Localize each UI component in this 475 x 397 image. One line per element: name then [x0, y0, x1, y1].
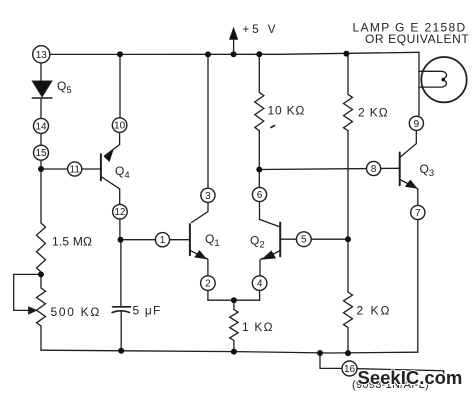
wire node 16 stub from rail	[320, 353, 342, 368]
wire top rail down to 10K resistor	[258, 54, 260, 92]
svg-text:1.5 MΩ: 1.5 MΩ	[52, 235, 92, 249]
svg-text:500 KΩ: 500 KΩ	[51, 305, 102, 319]
svg-text:6: 6	[257, 190, 263, 201]
wire bottom ground rail	[41, 350, 418, 353]
junction dot rail / 1K	[231, 349, 237, 355]
svg-text:Q5: Q5	[57, 79, 72, 96]
resistor 2 Kohm upper	[344, 94, 353, 130]
wire Q4 collector to node 12	[101, 177, 120, 205]
svg-text:12: 12	[114, 207, 126, 218]
wire node 12 to node B junction	[119, 219, 121, 240]
svg-text:Q4: Q4	[115, 164, 130, 181]
junction dot divider / node 5	[345, 236, 351, 242]
svg-text:OR EQUIVALENT: OR EQUIVALENT	[365, 32, 469, 46]
svg-text:5: 5	[301, 235, 307, 246]
wire 10K bottom to node 6 and Q2 collector	[258, 131, 260, 188]
wire lower 2K to rail	[347, 328, 349, 354]
wire top rail to node 3 / Q1 collector	[192, 54, 209, 222]
wire node 4 to 1K junction	[234, 290, 260, 300]
stray mark under 10K label	[271, 126, 275, 128]
wire node 14 to node 15	[40, 133, 42, 146]
junction dot rail / node 16 stub	[317, 350, 323, 356]
diode Q5	[32, 81, 52, 98]
svg-text:11: 11	[70, 165, 81, 176]
svg-text:15: 15	[35, 148, 47, 159]
svg-text:9: 9	[414, 119, 420, 130]
wire diode to node 14	[40, 98, 42, 118]
svg-text:Q2: Q2	[250, 234, 265, 251]
resistor 10 Kohm	[255, 92, 264, 130]
node 14	[34, 118, 49, 133]
junction dot 10K bottom / node C	[256, 167, 262, 173]
wire Q1 emitter to node 2	[206, 258, 208, 276]
svg-text:Q3: Q3	[420, 162, 435, 179]
svg-text:8: 8	[371, 164, 377, 175]
wire node 6 to Q2 collector	[260, 202, 281, 228]
wire 1K junction to resistor and rail	[233, 300, 235, 351]
svg-text:1 KΩ: 1 KΩ	[242, 320, 274, 334]
wire 2K bottom through node D to lower 2K	[347, 131, 349, 292]
svg-text:+5 V: +5 V	[243, 24, 279, 36]
svg-text:5 μF: 5 μF	[133, 304, 162, 318]
junction dot node B below 12	[118, 237, 124, 243]
resistor 500 Kohm potentiometer	[29, 288, 46, 326]
svg-text:16: 16	[344, 364, 356, 375]
node 3	[201, 188, 215, 202]
transistor Q4 (PNP)	[101, 149, 114, 180]
node 10	[112, 118, 127, 133]
wire left column node13 to diode	[40, 63, 42, 81]
node 2	[201, 276, 216, 291]
node 9	[409, 116, 423, 130]
node 4	[252, 276, 267, 291]
wire node A junction to base of Q4 through node 11	[41, 168, 101, 170]
resistor 2 Kohm lower	[344, 292, 353, 328]
wire node 10 to Q4 emitter	[105, 132, 120, 156]
junction dot top rail / 10K	[256, 51, 262, 57]
wire node 7 to bottom rail	[417, 220, 419, 353]
transistor Q2 (NPN)	[262, 223, 280, 260]
wire top +5V rail	[50, 52, 419, 54]
svg-text:3: 3	[205, 191, 211, 202]
node 7	[411, 205, 425, 219]
svg-text:14: 14	[35, 121, 47, 132]
svg-text:2 KΩ: 2 KΩ	[358, 106, 389, 120]
node 8	[367, 161, 381, 175]
wire top rail to node 10	[119, 54, 121, 118]
svg-text:13: 13	[36, 50, 48, 61]
svg-text:1: 1	[160, 235, 166, 246]
node 12	[113, 204, 128, 219]
wire Q2 emitter to node 4	[260, 258, 263, 276]
wire 500K bottom to bottom rail	[40, 326, 42, 350]
svg-text:10 KΩ: 10 KΩ	[268, 104, 306, 118]
wire capacitor bottom to rail	[120, 312, 122, 351]
node 5	[296, 232, 311, 247]
capacitor C1 5uF	[112, 307, 130, 313]
transistor Q3 (NPN)	[400, 153, 417, 189]
node 11	[68, 162, 82, 176]
wire node B to Q1 base through node 1	[121, 239, 190, 241]
svg-text:10: 10	[114, 121, 126, 132]
node 16	[342, 361, 357, 376]
svg-text:2: 2	[205, 279, 211, 290]
junction dot rail / lower 2K	[345, 350, 351, 356]
power +5V arrow shaft	[233, 38, 235, 54]
resistor 1.5 Mohm	[37, 223, 46, 272]
wire potentiometer wiper loop	[14, 274, 41, 310]
wire top rail down to 2K resistor	[347, 54, 349, 95]
power +5V arrowhead	[229, 28, 237, 40]
junction dot top rail / +5V	[231, 51, 237, 57]
node 15	[34, 145, 49, 160]
lamp GE 2158D	[419, 57, 467, 102]
junction dot emitters / 1K	[231, 297, 237, 303]
wire node C junction to Q3 base through node 8	[259, 168, 399, 169]
node 6	[252, 187, 266, 201]
wire 1.5M bottom to 500K top	[40, 272, 42, 288]
junction dot pot wiper tap	[38, 271, 44, 277]
svg-text:Q1: Q1	[205, 232, 220, 249]
wire node B junction down to capacitor	[120, 240, 122, 306]
resistor 1 Kohm	[230, 310, 238, 341]
wire node 2 to 1K junction	[208, 290, 234, 300]
wire Q3 collector to node 9 and lamp	[400, 116, 417, 157]
wire node 15 to 1.5M resistor top, junction at node 11 branch	[40, 160, 42, 223]
junction dot node 11 branch	[38, 166, 44, 172]
transistor Q1 (NPN)	[190, 224, 206, 259]
junction dot rail / capacitor	[118, 348, 124, 354]
svg-text:SeekIC.com: SeekIC.com	[358, 367, 463, 388]
wire Q3 emitter to node 7	[416, 187, 418, 205]
junction dot top rail / 2K	[343, 51, 349, 57]
junction dot top rail / Q4 column	[117, 51, 123, 57]
junction dot top rail / Q1 column	[205, 51, 211, 57]
wire lamp branch from rail	[418, 52, 420, 116]
node 1	[155, 233, 169, 247]
svg-text:7: 7	[415, 208, 421, 219]
svg-text:4: 4	[257, 279, 263, 290]
wire Q2 base to node 5 to divider	[280, 238, 348, 240]
wire node 16 to right edge hook	[357, 369, 444, 377]
svg-text:2 KΩ: 2 KΩ	[357, 304, 392, 318]
node 13	[33, 46, 50, 63]
